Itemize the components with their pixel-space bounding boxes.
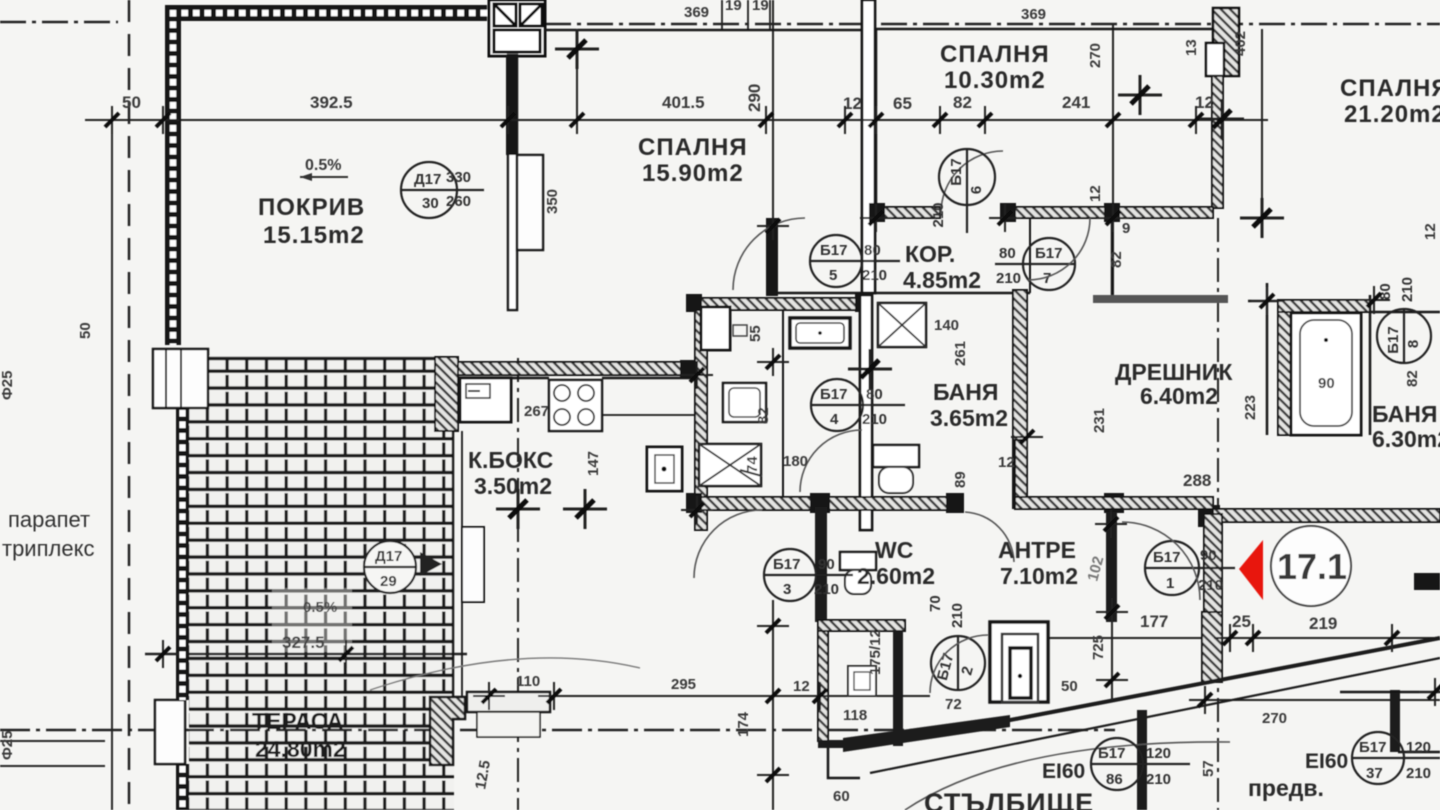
svg-text:288: 288	[1183, 471, 1211, 490]
svg-text:80: 80	[864, 242, 881, 259]
svg-text:174: 174	[735, 711, 752, 737]
svg-text:12: 12	[1087, 185, 1104, 202]
vertical hatched wall below x=1015	[1015, 440, 1027, 497]
kitchen stove 4 burners	[549, 380, 602, 431]
svg-text:9: 9	[1122, 220, 1130, 237]
svg-text:82: 82	[755, 407, 772, 424]
svg-text:118: 118	[843, 707, 867, 724]
dimension line y=638 antre	[1030, 637, 1440, 639]
svg-text:15.15m2: 15.15m2	[263, 222, 365, 249]
svg-text:330: 330	[446, 169, 471, 186]
svg-text:СТЪЛБИЩЕ: СТЪЛБИЩЕ	[924, 788, 1094, 810]
vertical dimension line x=577 top	[576, 30, 578, 120]
door arcs	[733, 218, 805, 290]
KOR left black bar	[766, 218, 778, 296]
svg-text:86: 86	[1106, 771, 1123, 788]
svg-text:Б17: Б17	[948, 158, 965, 185]
svg-text:82: 82	[1108, 251, 1125, 268]
svg-text:210: 210	[862, 411, 887, 428]
svg-text:Б17: Б17	[820, 242, 847, 259]
svg-text:110: 110	[516, 673, 540, 690]
svg-text:37: 37	[1366, 765, 1383, 782]
svg-text:3.65m2: 3.65m2	[930, 405, 1008, 431]
svg-text:210: 210	[949, 603, 966, 628]
svg-text:СПАЛНЯ: СПАЛНЯ	[940, 41, 1050, 68]
svg-text:231: 231	[1091, 408, 1108, 433]
svg-text:5: 5	[829, 267, 837, 284]
svg-text:70: 70	[927, 595, 944, 612]
wall between POKRIV and SPALNYA 15.90	[508, 55, 517, 310]
main horizontal dimension line y=120	[85, 119, 1268, 121]
svg-text:БАНЯ: БАНЯ	[1372, 401, 1437, 427]
svg-text:3.50m2: 3.50m2	[474, 473, 552, 499]
svg-text:369: 369	[684, 4, 709, 21]
svg-text:Б17: Б17	[820, 386, 847, 403]
axis vertical dashed left	[128, 0, 131, 810]
right wall of SPALNYA 10.30 hatched	[1212, 76, 1223, 208]
svg-text:72: 72	[945, 696, 962, 713]
svg-text:219: 219	[1309, 614, 1337, 633]
svg-text:210: 210	[862, 267, 887, 284]
dimension line y=694 bottom center	[468, 695, 930, 697]
washing machine	[723, 383, 766, 422]
shower square with X (BANYA top)	[878, 303, 926, 347]
svg-text:15.90m2: 15.90m2	[642, 160, 744, 187]
axis vertical solid left	[111, 120, 113, 810]
kitchen top hatched wall	[455, 362, 695, 375]
door tag B17/1	[1145, 541, 1235, 595]
svg-text:триплекс: триплекс	[2, 536, 94, 561]
door tag B17/5	[810, 235, 900, 287]
svg-text:7.10m2: 7.10m2	[1000, 563, 1078, 589]
svg-text:290: 290	[745, 84, 764, 112]
svg-text:725: 725	[1090, 635, 1107, 660]
svg-text:ДРЕШНИК: ДРЕШНИК	[1115, 359, 1233, 385]
svg-text:парапет: парапет	[8, 507, 90, 532]
svg-text:90: 90	[1318, 375, 1335, 392]
svg-text:1: 1	[1166, 575, 1174, 592]
svg-text:Б17: Б17	[1385, 326, 1402, 353]
svg-text:210: 210	[1399, 277, 1416, 302]
svg-text:Б17: Б17	[1153, 549, 1180, 566]
counter line	[511, 377, 549, 380]
terrace dimension line y=654	[145, 653, 467, 656]
svg-text:327.5: 327.5	[282, 633, 325, 652]
window in that wall	[517, 155, 543, 250]
svg-text:210: 210	[1146, 771, 1171, 788]
svg-text:267: 267	[524, 403, 549, 420]
svg-text:180: 180	[783, 453, 808, 470]
svg-text:АНТРЕ: АНТРЕ	[998, 537, 1076, 563]
svg-text:392.5: 392.5	[310, 93, 353, 112]
svg-text:12: 12	[998, 454, 1015, 471]
BANYA 6.30 walls hatched	[1278, 300, 1291, 435]
bathtub BANYA 6.30	[1291, 313, 1361, 435]
svg-text:К.БОКС: К.БОКС	[468, 447, 553, 473]
vertical dimension line x=773	[772, 0, 774, 293]
dimension line y=700 bottom right	[1205, 699, 1440, 701]
wall between WC and BANYA x=863	[860, 295, 872, 530]
svg-text:25: 25	[1232, 612, 1251, 631]
svg-text:241: 241	[1062, 93, 1090, 112]
dotted insulated wall top (POKRIV)	[165, 5, 487, 21]
KOR right edge line	[1029, 218, 1031, 293]
svg-text:EI60: EI60	[1305, 750, 1348, 773]
svg-text:80: 80	[999, 245, 1016, 262]
svg-text:65: 65	[893, 94, 912, 113]
svg-text:177: 177	[1140, 612, 1168, 631]
red apartment triangle	[1239, 540, 1263, 600]
toilet in WC room	[840, 552, 876, 570]
svg-text:12: 12	[1195, 93, 1214, 112]
svg-text:55: 55	[747, 325, 764, 342]
central wall between bedrooms x=863	[862, 0, 875, 293]
band far right lower	[1213, 509, 1440, 522]
svg-text:30: 30	[422, 195, 439, 212]
svg-text:12: 12	[1422, 223, 1439, 240]
svg-text:2.60m2: 2.60m2	[857, 563, 935, 589]
svg-text:175/12: 175/12	[867, 629, 884, 675]
svg-text:210: 210	[930, 202, 947, 227]
door tag B17/4	[811, 379, 905, 431]
dash-dot vertical x=1218	[1217, 218, 1219, 810]
svg-text:210: 210	[1406, 765, 1431, 782]
vanity washbasin	[790, 318, 850, 348]
17.1 apartment marker	[1271, 526, 1351, 606]
svg-text:ПОКРИВ: ПОКРИВ	[258, 194, 365, 221]
svg-text:Б17: Б17	[1035, 245, 1062, 262]
svg-text:74: 74	[744, 456, 761, 473]
svg-text:260: 260	[446, 193, 471, 210]
terrace door jamb block	[430, 697, 465, 765]
left bottom short lines	[0, 740, 105, 742]
svg-text:120: 120	[1146, 745, 1171, 762]
vertical dimension line x=1113	[1112, 25, 1114, 300]
svg-text:82: 82	[953, 93, 972, 112]
door tag B17/86 (EI60)	[1042, 738, 1190, 790]
terrace tiled floor	[189, 356, 454, 810]
svg-text:WC: WC	[875, 537, 913, 563]
door leaf bottom center	[990, 622, 1048, 702]
bottom right walls	[1137, 710, 1147, 810]
svg-text:Б17: Б17	[1098, 745, 1125, 762]
KOR bottom wall	[770, 292, 1030, 295]
toilet in BANYA	[873, 445, 919, 467]
svg-text:261: 261	[952, 341, 969, 366]
dotted insulated wall left (POKRIV)	[165, 5, 181, 345]
svg-text:Д17: Д17	[375, 548, 402, 565]
column box in vanity	[701, 307, 730, 350]
svg-text:13: 13	[1183, 39, 1200, 56]
svg-text:50: 50	[1061, 678, 1078, 695]
window tag D17 29 (terrace)	[364, 541, 442, 593]
svg-text:21.20m2: 21.20m2	[1344, 101, 1440, 128]
svg-text:0.5%: 0.5%	[303, 599, 337, 616]
svg-text:0.5%: 0.5%	[305, 157, 341, 174]
svg-text:210: 210	[814, 581, 839, 598]
WC room walls	[815, 507, 827, 622]
door tag B17/37 (EI60 right)	[1305, 732, 1440, 784]
top line of SPALNYA 15.90	[545, 29, 876, 32]
svg-text:223: 223	[1242, 395, 1259, 420]
band right part 1015-1213	[1015, 497, 1213, 509]
right wall of BANYA hatched x=1015	[1013, 290, 1027, 508]
door tag B17/2	[927, 595, 985, 690]
svg-text:295: 295	[671, 676, 696, 693]
svg-text:401.5: 401.5	[662, 93, 705, 112]
svg-text:EI60: EI60	[1042, 760, 1085, 783]
wall x=1204 vertical lower	[1204, 514, 1222, 612]
svg-text:Ф25: Ф25	[0, 371, 16, 401]
door threshold	[467, 692, 550, 712]
shaft block top center	[489, 0, 545, 56]
vanity top hatched wall	[690, 298, 868, 310]
svg-text:8: 8	[1405, 340, 1422, 348]
washbasin in small room	[848, 666, 876, 696]
svg-text:82: 82	[1404, 370, 1421, 387]
top line of SPALNYA 10.30	[876, 28, 1213, 31]
svg-text:12: 12	[793, 678, 810, 695]
svg-text:Д17: Д17	[414, 171, 441, 188]
svg-text:17.1: 17.1	[1277, 546, 1347, 587]
DRESHNIK top wall	[1093, 295, 1228, 303]
svg-text:210: 210	[1198, 577, 1223, 594]
svg-text:90: 90	[818, 556, 835, 573]
svg-text:50: 50	[77, 322, 94, 339]
ANTRE right wall black	[1106, 512, 1117, 622]
vertical line x=1262	[1261, 29, 1263, 218]
kitchen sink	[460, 378, 511, 422]
svg-text:57: 57	[1200, 760, 1217, 777]
vertical dim line x=773 lower	[772, 600, 774, 810]
svg-text:270: 270	[1087, 43, 1104, 68]
svg-text:СПАЛНЯ: СПАЛНЯ	[638, 134, 748, 161]
kitchen left hatched column	[435, 357, 458, 431]
svg-text:4.85m2: 4.85m2	[903, 267, 981, 293]
svg-text:КОР.: КОР.	[905, 241, 955, 267]
svg-text:29: 29	[380, 573, 397, 590]
right edge stub wall	[1414, 573, 1440, 590]
door tag B17/6 rotated	[930, 149, 995, 233]
svg-text:140: 140	[934, 317, 959, 334]
wall left of bath area x=695	[695, 310, 707, 530]
svg-text:369: 369	[1021, 6, 1046, 23]
svg-text:270: 270	[1262, 710, 1287, 727]
big bottom hatched wall band WC/ANTRE left part	[690, 497, 962, 510]
door tag B17/3	[764, 549, 853, 601]
svg-text:6: 6	[968, 186, 985, 194]
svg-text:4: 4	[830, 411, 839, 428]
fridge square with dot	[647, 447, 682, 491]
svg-text:6.30m2: 6.30m2	[1372, 426, 1440, 452]
svg-text:89: 89	[952, 471, 969, 488]
svg-text:3: 3	[783, 581, 791, 598]
shower square with X (below vanity)	[699, 444, 761, 486]
svg-text:90: 90	[1200, 547, 1217, 564]
svg-text:50: 50	[122, 93, 141, 112]
svg-text:24.80m2: 24.80m2	[255, 736, 346, 762]
svg-text:120: 120	[1406, 739, 1431, 756]
kitchen right wall lines	[452, 431, 455, 700]
svg-text:147: 147	[585, 451, 602, 476]
stairs diagonals bottom right	[843, 715, 1010, 752]
window tag D17 330/260	[400, 162, 484, 218]
svg-text:Б17: Б17	[773, 556, 800, 573]
svg-text:60: 60	[833, 788, 850, 805]
svg-text:210: 210	[996, 270, 1021, 287]
svg-text:402: 402	[1232, 31, 1249, 56]
axis dash-dot horizontal top right	[545, 23, 1440, 26]
dash-dot vertical x=518 kitchen axis	[517, 358, 519, 810]
svg-text:Ф25: Ф25	[0, 731, 16, 761]
axis dash-dot horizontal top left	[0, 21, 118, 24]
door tag B17/B (bath 6.30) rotated	[1377, 277, 1431, 363]
dash-dot horizontal bottom y=730	[0, 729, 1115, 732]
top right shaft	[1206, 8, 1239, 76]
door tag B17/7	[995, 238, 1075, 290]
svg-text:Б17: Б17	[1359, 739, 1386, 756]
svg-text:350: 350	[544, 189, 561, 214]
svg-text:СПАЛНЯ: СПАЛНЯ	[1340, 75, 1440, 102]
svg-text:19: 19	[725, 0, 742, 14]
svg-text:19: 19	[752, 0, 769, 14]
faded patch around labels	[272, 588, 352, 652]
svg-text:10.30m2: 10.30m2	[944, 67, 1046, 94]
svg-text:предв.: предв.	[1248, 775, 1324, 801]
svg-text:ТЕРАСА: ТЕРАСА	[252, 708, 343, 734]
left wall windows (terrace)	[153, 349, 208, 408]
svg-text:БАНЯ: БАНЯ	[933, 379, 998, 405]
svg-text:6.40m2: 6.40m2	[1140, 383, 1218, 409]
bottom hatched wall of SPALNYA 10.30 / top of KOR	[876, 207, 940, 218]
left wall line of SPALNYA 10.30	[875, 29, 878, 208]
DRESHNIK left wall line	[1111, 218, 1114, 295]
